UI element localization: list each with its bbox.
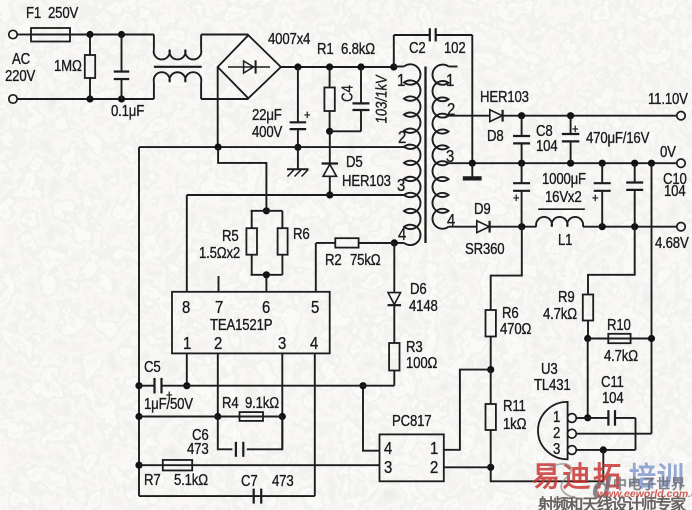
terminal 0V	[677, 159, 685, 167]
resistor R6 470	[486, 310, 496, 337]
wire PC817 pin2 out	[444, 466, 491, 468]
resistor R4 9.1k	[240, 412, 264, 421]
IC U2 TEA1521P box	[172, 292, 330, 354]
label HER103 D5	[342, 174, 391, 190]
wire choke to bridge top	[201, 34, 248, 36]
label primary tap3	[397, 176, 405, 194]
capacitor 1000uF 16V no.2	[601, 163, 603, 183]
label 22uF	[252, 108, 282, 124]
label 104 C10	[664, 184, 685, 200]
label 0.1uF	[111, 104, 144, 120]
junction R11 bottom / PC817 pin2	[487, 464, 494, 471]
resistor R5 1.5ohm	[251, 210, 283, 212]
capacitor C2 102	[393, 35, 395, 67]
label secondary tap2	[447, 100, 455, 118]
label C11	[601, 375, 624, 391]
wire TEA pin1 down	[186, 353, 188, 385]
diode D9 SR360	[477, 221, 489, 233]
ground chassis	[297, 147, 299, 169]
capacitor C6 473	[218, 417, 233, 450]
junction 22uF bottom on return line	[294, 144, 301, 151]
label 102	[444, 41, 465, 57]
resistor R1 6.8k	[329, 67, 331, 88]
junction TL431 ref node	[584, 414, 591, 421]
junction R10 right on 0V branch	[648, 335, 655, 342]
label R10	[607, 318, 631, 334]
terminal AC input top	[9, 30, 17, 38]
watermark red brand text	[532, 455, 624, 495]
wire 4.68V line left	[490, 226, 537, 228]
label pin4	[310, 334, 318, 352]
junction 470uF top	[567, 112, 574, 119]
transformer core	[424, 67, 426, 244]
junction tap3 / C2	[469, 160, 476, 167]
common-mode choke top winding	[153, 35, 155, 50]
wire 4.68V line right	[583, 226, 676, 228]
junction 0V to R10 branch	[648, 160, 655, 167]
label 1000uF	[542, 172, 586, 188]
label 4.7k-ohm R9	[543, 307, 577, 323]
junction pin3 / R4 line	[279, 413, 286, 420]
terminal 4.68V	[677, 223, 685, 231]
common-mode choke bottom winding	[153, 82, 155, 99]
wire R10 line	[588, 338, 652, 340]
capacitor C8 104	[521, 116, 523, 136]
resistor R7 5.1k	[163, 460, 192, 471]
optocoupler PC817 box	[380, 434, 444, 481]
label PC817	[392, 414, 431, 430]
wire TL431 pin3 line	[576, 449, 635, 451]
wire R4 line	[139, 416, 282, 418]
label 104 C8	[536, 139, 557, 155]
wire DC positive rail	[281, 66, 394, 68]
label R4	[222, 396, 239, 412]
label 0V	[660, 145, 676, 161]
label plus 22uF	[304, 108, 310, 122]
junction C10 bottom / R9 feed	[631, 223, 638, 230]
junction 1000uF-2 bottom	[599, 223, 606, 230]
capacitor C10 104	[634, 163, 636, 182]
wire TEA pin5 to R2	[315, 243, 317, 292]
common-mode choke core	[154, 66, 202, 68]
terminal 11.10V	[677, 112, 685, 120]
label 16Vx2 underline	[538, 208, 585, 210]
label R7	[144, 473, 161, 489]
label R5	[222, 229, 239, 245]
label 1M-ohm	[54, 59, 82, 75]
wire C5 line to R3 bottom	[187, 385, 394, 387]
label secondary tap1	[446, 71, 454, 89]
label TL431 pin2	[553, 426, 560, 442]
secondary common bar	[471, 163, 473, 176]
label primary tap2	[398, 128, 406, 146]
diode D6 4148	[393, 243, 395, 293]
junction tap4 / D6 top	[391, 239, 398, 246]
label 4007x4	[268, 32, 310, 48]
label TL431 pin3	[553, 442, 560, 458]
wire left ground bus	[138, 147, 140, 496]
label 4.7k-ohm R10	[604, 349, 638, 365]
label pin5	[311, 298, 319, 316]
wire TEA pin3 down	[281, 353, 283, 449]
diode D8 HER103	[490, 110, 502, 122]
terminal AC input bottom	[9, 95, 17, 103]
junction pin1 / C5	[183, 382, 190, 389]
label pin1	[183, 334, 191, 352]
wire R1-C4 bottom link	[330, 130, 361, 132]
junction bottom of 0.1uF cap	[118, 95, 125, 102]
junction C8 top	[518, 112, 525, 119]
capacitor 0.1uF	[121, 35, 123, 72]
label C4 rotated	[340, 85, 357, 102]
label D8	[487, 129, 504, 145]
label pin8	[182, 298, 190, 316]
label pin2	[214, 334, 222, 352]
junction bus / R7 line	[135, 462, 142, 469]
junction pin2 / R4 line	[214, 413, 221, 420]
label 473 C7	[272, 474, 293, 490]
wire secondary tap2 to D8	[449, 115, 490, 117]
label primary tap4	[398, 225, 406, 243]
wire TL431 pin1 to ref node	[576, 417, 587, 419]
resistor 1M-ohm	[89, 35, 91, 56]
junction bridge drop / R5R6 feed	[215, 144, 222, 151]
junction R6-470 bottom / PC817 pin1	[487, 366, 494, 373]
junction PC817 pin4 branch	[359, 382, 366, 389]
junction R9 bottom / R10 left	[584, 335, 591, 342]
label plus 470uF	[572, 122, 578, 136]
label plus 1000uF-2	[592, 191, 598, 205]
junction 1000uF-2 top	[599, 160, 606, 167]
label secondary tap3	[446, 147, 454, 165]
wire bottom rail	[139, 495, 315, 497]
label 220V	[5, 69, 35, 85]
label 11.10V	[648, 92, 688, 108]
junction top of 0.1uF cap	[118, 31, 125, 38]
wire R9 feed step	[588, 227, 635, 295]
label HER103 D8	[480, 90, 529, 106]
label 1k-ohm	[503, 417, 526, 433]
capacitor 470uF/16V	[570, 116, 572, 134]
label primary tap1	[397, 71, 405, 89]
wire R5R6 feed step	[218, 147, 266, 211]
wire secondary tap4 to D9	[449, 226, 477, 228]
wire primary tap4 line	[359, 242, 404, 244]
label 103/1kV rotated	[374, 74, 391, 125]
junction C8 bottom	[518, 160, 525, 167]
label L1	[558, 233, 572, 249]
label secondary tap4	[447, 211, 455, 229]
label 250V	[48, 6, 78, 22]
label R1	[317, 42, 334, 58]
label U3	[541, 362, 558, 378]
label 75k-ohm	[350, 253, 380, 269]
label PC817 pin4	[384, 439, 392, 457]
wire AC top input	[17, 34, 31, 36]
watermark gray site name	[613, 474, 686, 494]
label AC	[12, 52, 30, 68]
wire TEA pin8 to tap3 line	[186, 195, 188, 292]
label 1.5ohm-x2	[199, 246, 240, 262]
label D9	[474, 202, 491, 218]
fuse F1	[31, 28, 70, 42]
label 470uF/16V	[586, 131, 649, 147]
watermark d logo	[592, 470, 612, 506]
label R11	[503, 399, 526, 415]
wire AC bottom input	[17, 98, 154, 100]
capacitor C5 1uF/50V	[139, 385, 155, 387]
label 4148	[409, 299, 438, 315]
label R3	[406, 340, 423, 356]
TL431 pin 1 bubble	[568, 414, 577, 423]
junction 22uF cap top	[294, 63, 301, 70]
TL431 pin 2 bubble	[568, 429, 577, 438]
TL431 pin 3 bubble	[568, 446, 577, 455]
resistor R9 4.7k	[583, 295, 593, 321]
label R2	[325, 253, 342, 269]
transformer secondary winding	[432, 65, 448, 229]
wire choke to bridge bottom	[201, 98, 248, 100]
junction R5R6 bottom	[263, 271, 270, 278]
capacitor C4 103/1kV	[360, 67, 362, 103]
label 16Vx2	[545, 190, 582, 206]
wire R6-470 feed step	[491, 227, 522, 310]
label C8	[536, 124, 553, 140]
label D5	[346, 155, 363, 171]
junction R1 top	[326, 63, 333, 70]
label 1uF/50V	[144, 397, 193, 413]
label PC817 pin2	[430, 458, 438, 476]
wire secondary tap1 stub	[449, 66, 458, 68]
label 100-ohm	[406, 356, 437, 372]
junction top of 1M resistor	[86, 31, 93, 38]
resistor R3 100	[393, 306, 395, 343]
label 5.1k-ohm	[174, 473, 208, 489]
label PC817 pin1	[430, 439, 438, 457]
op-amp U3 TL431 body	[538, 402, 568, 459]
wire PC817 pin1 to junction	[444, 370, 491, 450]
label C6	[192, 428, 209, 444]
transformer primary winding	[394, 66, 404, 68]
resistor R11 1k	[490, 370, 492, 404]
wire R10-left down to ref node	[587, 339, 589, 418]
label TL431 pin1	[553, 410, 560, 426]
wire TL431 pin2 to 0V branch	[576, 433, 651, 435]
label C7	[241, 474, 258, 490]
junction 470uF bottom	[567, 160, 574, 167]
label 400V	[252, 125, 282, 141]
label R6 parallel	[293, 227, 310, 243]
watermark slogan	[538, 491, 685, 510]
wire TEA pin2 down	[217, 353, 219, 416]
wire cathode jog	[491, 450, 604, 481]
wire C2 to secondary common	[471, 35, 473, 163]
junction rail to C2 and transformer pin1	[390, 63, 397, 70]
capacitor 22uF 400V	[297, 67, 299, 122]
wire TEA pin4 down	[314, 353, 316, 496]
label 9.1k-ohm	[245, 396, 279, 412]
junction R1 bottom / D5 top	[326, 128, 333, 135]
junction D9 / 1000uF-1 / R6 feed	[518, 223, 525, 230]
junction bottom of 1M resistor	[86, 95, 93, 102]
junction bus / R4 line	[135, 413, 142, 420]
label TL431	[534, 378, 571, 394]
label pin6	[262, 298, 270, 316]
capacitor C7 473	[253, 489, 255, 504]
resistor R6 1.5ohm	[281, 211, 283, 228]
junction D5 anode on tap3 line	[326, 191, 333, 198]
label R6-470	[502, 306, 519, 322]
wire TEA pin6 to R5R6	[265, 275, 267, 292]
resistor R10 4.7k	[608, 334, 630, 343]
label TEA1521P	[210, 318, 272, 334]
label plus 1000uF-1	[513, 191, 519, 205]
label C10	[663, 172, 687, 188]
label plus C5	[166, 388, 172, 402]
label C5	[144, 360, 161, 376]
wire bridge negative drop	[217, 67, 219, 147]
label 470-ohm	[500, 322, 531, 338]
diode D5 HER103	[322, 162, 339, 164]
watermark url	[597, 488, 692, 500]
junction C4 top	[357, 63, 364, 70]
label pin3	[278, 334, 286, 352]
wire primary tap2 return line	[139, 146, 404, 148]
junction C10 top	[631, 160, 638, 167]
inductor L1	[536, 217, 583, 227]
wire R7 line to PC817 pin3	[139, 464, 380, 466]
label 6.8k-ohm	[341, 42, 375, 58]
wire C11 right drop to pin3 line	[635, 418, 637, 450]
capacitor 1000uF 16V no.1	[521, 163, 523, 183]
label C2	[409, 41, 426, 57]
wire TEA pin7 stub	[218, 276, 220, 292]
wire secondary tap3 0V line	[449, 162, 677, 164]
capacitor C11 104	[588, 417, 609, 419]
wire primary tap3 to pin8 line	[187, 194, 404, 196]
label 4.68V	[655, 236, 689, 252]
label 104 C11	[602, 391, 623, 407]
label 473 C6	[187, 442, 208, 458]
label D6	[410, 282, 427, 298]
wire 11.10V output line	[503, 115, 677, 117]
label F1	[26, 6, 41, 22]
wire PC817 pin4 feed	[363, 386, 380, 451]
label SR360	[465, 242, 504, 258]
resistor R2 75k	[316, 242, 335, 244]
bridge rectifier 4007x4	[218, 35, 281, 98]
junction bus / C5 line	[135, 382, 142, 389]
label R9	[558, 290, 575, 306]
junction pin3 line	[600, 446, 607, 453]
watermark blue brand text	[629, 455, 685, 494]
wire top rail to choke	[70, 34, 154, 36]
label pin7	[215, 298, 223, 316]
wire 0V to R10 vertical	[651, 163, 653, 434]
junction R5R6 top	[263, 207, 270, 214]
label PC817 pin3	[384, 458, 392, 476]
